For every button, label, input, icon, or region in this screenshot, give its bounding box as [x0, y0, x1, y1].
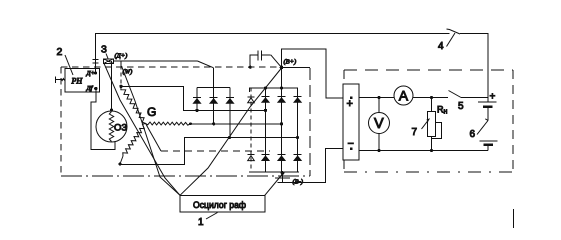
node phase B diode2 — [212, 122, 215, 125]
probe line B+ to oscilloscope — [180, 68, 282, 195]
probe line D+ to oscilloscope — [104, 63, 180, 195]
svg-text:G: G — [147, 105, 156, 119]
stator winding B zigzag — [146, 122, 191, 125]
probe line W to oscilloscope — [122, 66, 181, 195]
svg-text:1: 1 — [198, 217, 204, 228]
svg-text:(В-): (В-) — [293, 179, 303, 186]
wire B- to test bench — [288, 149, 344, 183]
label 4 — [438, 33, 455, 52]
rectifier top bar (+) — [249, 87, 298, 89]
node phase A diode1 — [195, 109, 198, 112]
label 1 — [198, 213, 218, 229]
node phase A top — [119, 85, 122, 88]
col1 bottom outline diode — [248, 154, 255, 156]
node phase C bridge col4 — [296, 136, 299, 139]
connector ticks on D+ lead — [93, 59, 99, 61]
node above field winding — [110, 108, 113, 111]
stator winding C zigzag — [123, 123, 146, 156]
svg-text:+: + — [347, 98, 353, 110]
terminal block — [343, 84, 359, 160]
node D+ of RN — [94, 71, 97, 74]
switch S6 — [477, 119, 488, 135]
wire D+ to extra diodes — [113, 60, 197, 62]
probe line B- to oscilloscope — [265, 174, 283, 195]
svg-text:6: 6 — [470, 129, 476, 140]
field winding feed wire — [111, 61, 113, 112]
wire B+ to test bench — [282, 49, 344, 98]
node phase C start — [118, 162, 121, 165]
extra diodes bus — [197, 87, 230, 89]
extra diode 2 — [213, 68, 215, 124]
wire phase B — [190, 123, 282, 125]
junction B+ feed on rectifier top bar — [280, 87, 283, 90]
right dashed box (test bench) — [344, 69, 513, 71]
node B+ — [280, 66, 284, 70]
wire phase A — [121, 86, 266, 110]
node phase C diode3 — [228, 136, 231, 139]
node phase A bridge col2 — [264, 109, 267, 112]
Df to brush wire — [91, 90, 115, 150]
bench top wire — [359, 97, 394, 99]
wire top outer from D+ connector to switch 4 — [96, 34, 450, 74]
switch S5 — [449, 91, 462, 98]
oscilloscope box — [180, 195, 265, 212]
svg-text:Дf: Дf — [86, 85, 94, 92]
terminal W tick and dashed drop — [120, 62, 122, 66]
voltmeter V — [377, 96, 380, 99]
rheostat Rn — [430, 96, 433, 99]
RN left terminal — [54, 76, 56, 83]
neutral W lead from star point — [146, 123, 162, 151]
svg-text:Rн: Rн — [437, 105, 448, 116]
wire phase C — [120, 138, 298, 165]
switch S4 — [447, 29, 461, 34]
bench bottom wire — [359, 150, 488, 152]
label 2 — [57, 46, 74, 75]
battery 2 — [480, 140, 498, 142]
bridge col4 — [297, 88, 299, 173]
extra diode 1 — [196, 88, 198, 111]
svg-text:5: 5 — [458, 101, 464, 112]
node phase B bridge col3 — [280, 122, 283, 125]
svg-text:+: + — [490, 92, 496, 103]
wire switch4 to battery — [460, 34, 488, 102]
bridge col3 — [281, 67, 283, 172]
label 3 — [101, 44, 108, 59]
svg-text:Д+: Д+ — [86, 70, 96, 77]
svg-text:A: A — [399, 88, 409, 104]
svg-text:Осцилог раф: Осцилог раф — [193, 200, 246, 211]
svg-text:V: V — [374, 116, 384, 132]
wire B+ node to box edge — [282, 66, 311, 68]
stator winding A zigzag — [121, 86, 146, 123]
bridge col2 — [265, 88, 267, 173]
stray segment bottom right — [513, 209, 515, 228]
svg-text:(Д+): (Д+) — [115, 53, 128, 60]
junction col2 on rectifier top bar — [264, 87, 267, 90]
rectifier bottom bar (-) — [249, 171, 299, 173]
capacitor C (noise suppression) on B+ — [249, 66, 252, 69]
node Df of RN — [94, 87, 97, 90]
svg-text:2: 2 — [57, 46, 63, 58]
rotor field winding OZ circle — [96, 111, 127, 142]
svg-text:7: 7 — [412, 127, 418, 138]
svg-text:(В+): (В+) — [284, 59, 297, 66]
B- connector ticks — [282, 172, 284, 183]
left dashed box (generator) — [61, 66, 282, 68]
node B- — [281, 171, 285, 175]
voltage regulator RN (2) box — [65, 69, 100, 93]
bridge col1 dashed (optional diodes) — [250, 88, 252, 173]
connector 3 (plug to oscilloscope) — [104, 59, 114, 64]
extra diode 3 — [229, 88, 231, 138]
svg-text:4: 4 — [438, 41, 444, 52]
svg-text:РН: РН — [71, 77, 84, 86]
svg-text:ОЗ: ОЗ — [114, 123, 127, 134]
ammeter A — [394, 86, 413, 105]
col1 top outline diode — [248, 96, 255, 98]
